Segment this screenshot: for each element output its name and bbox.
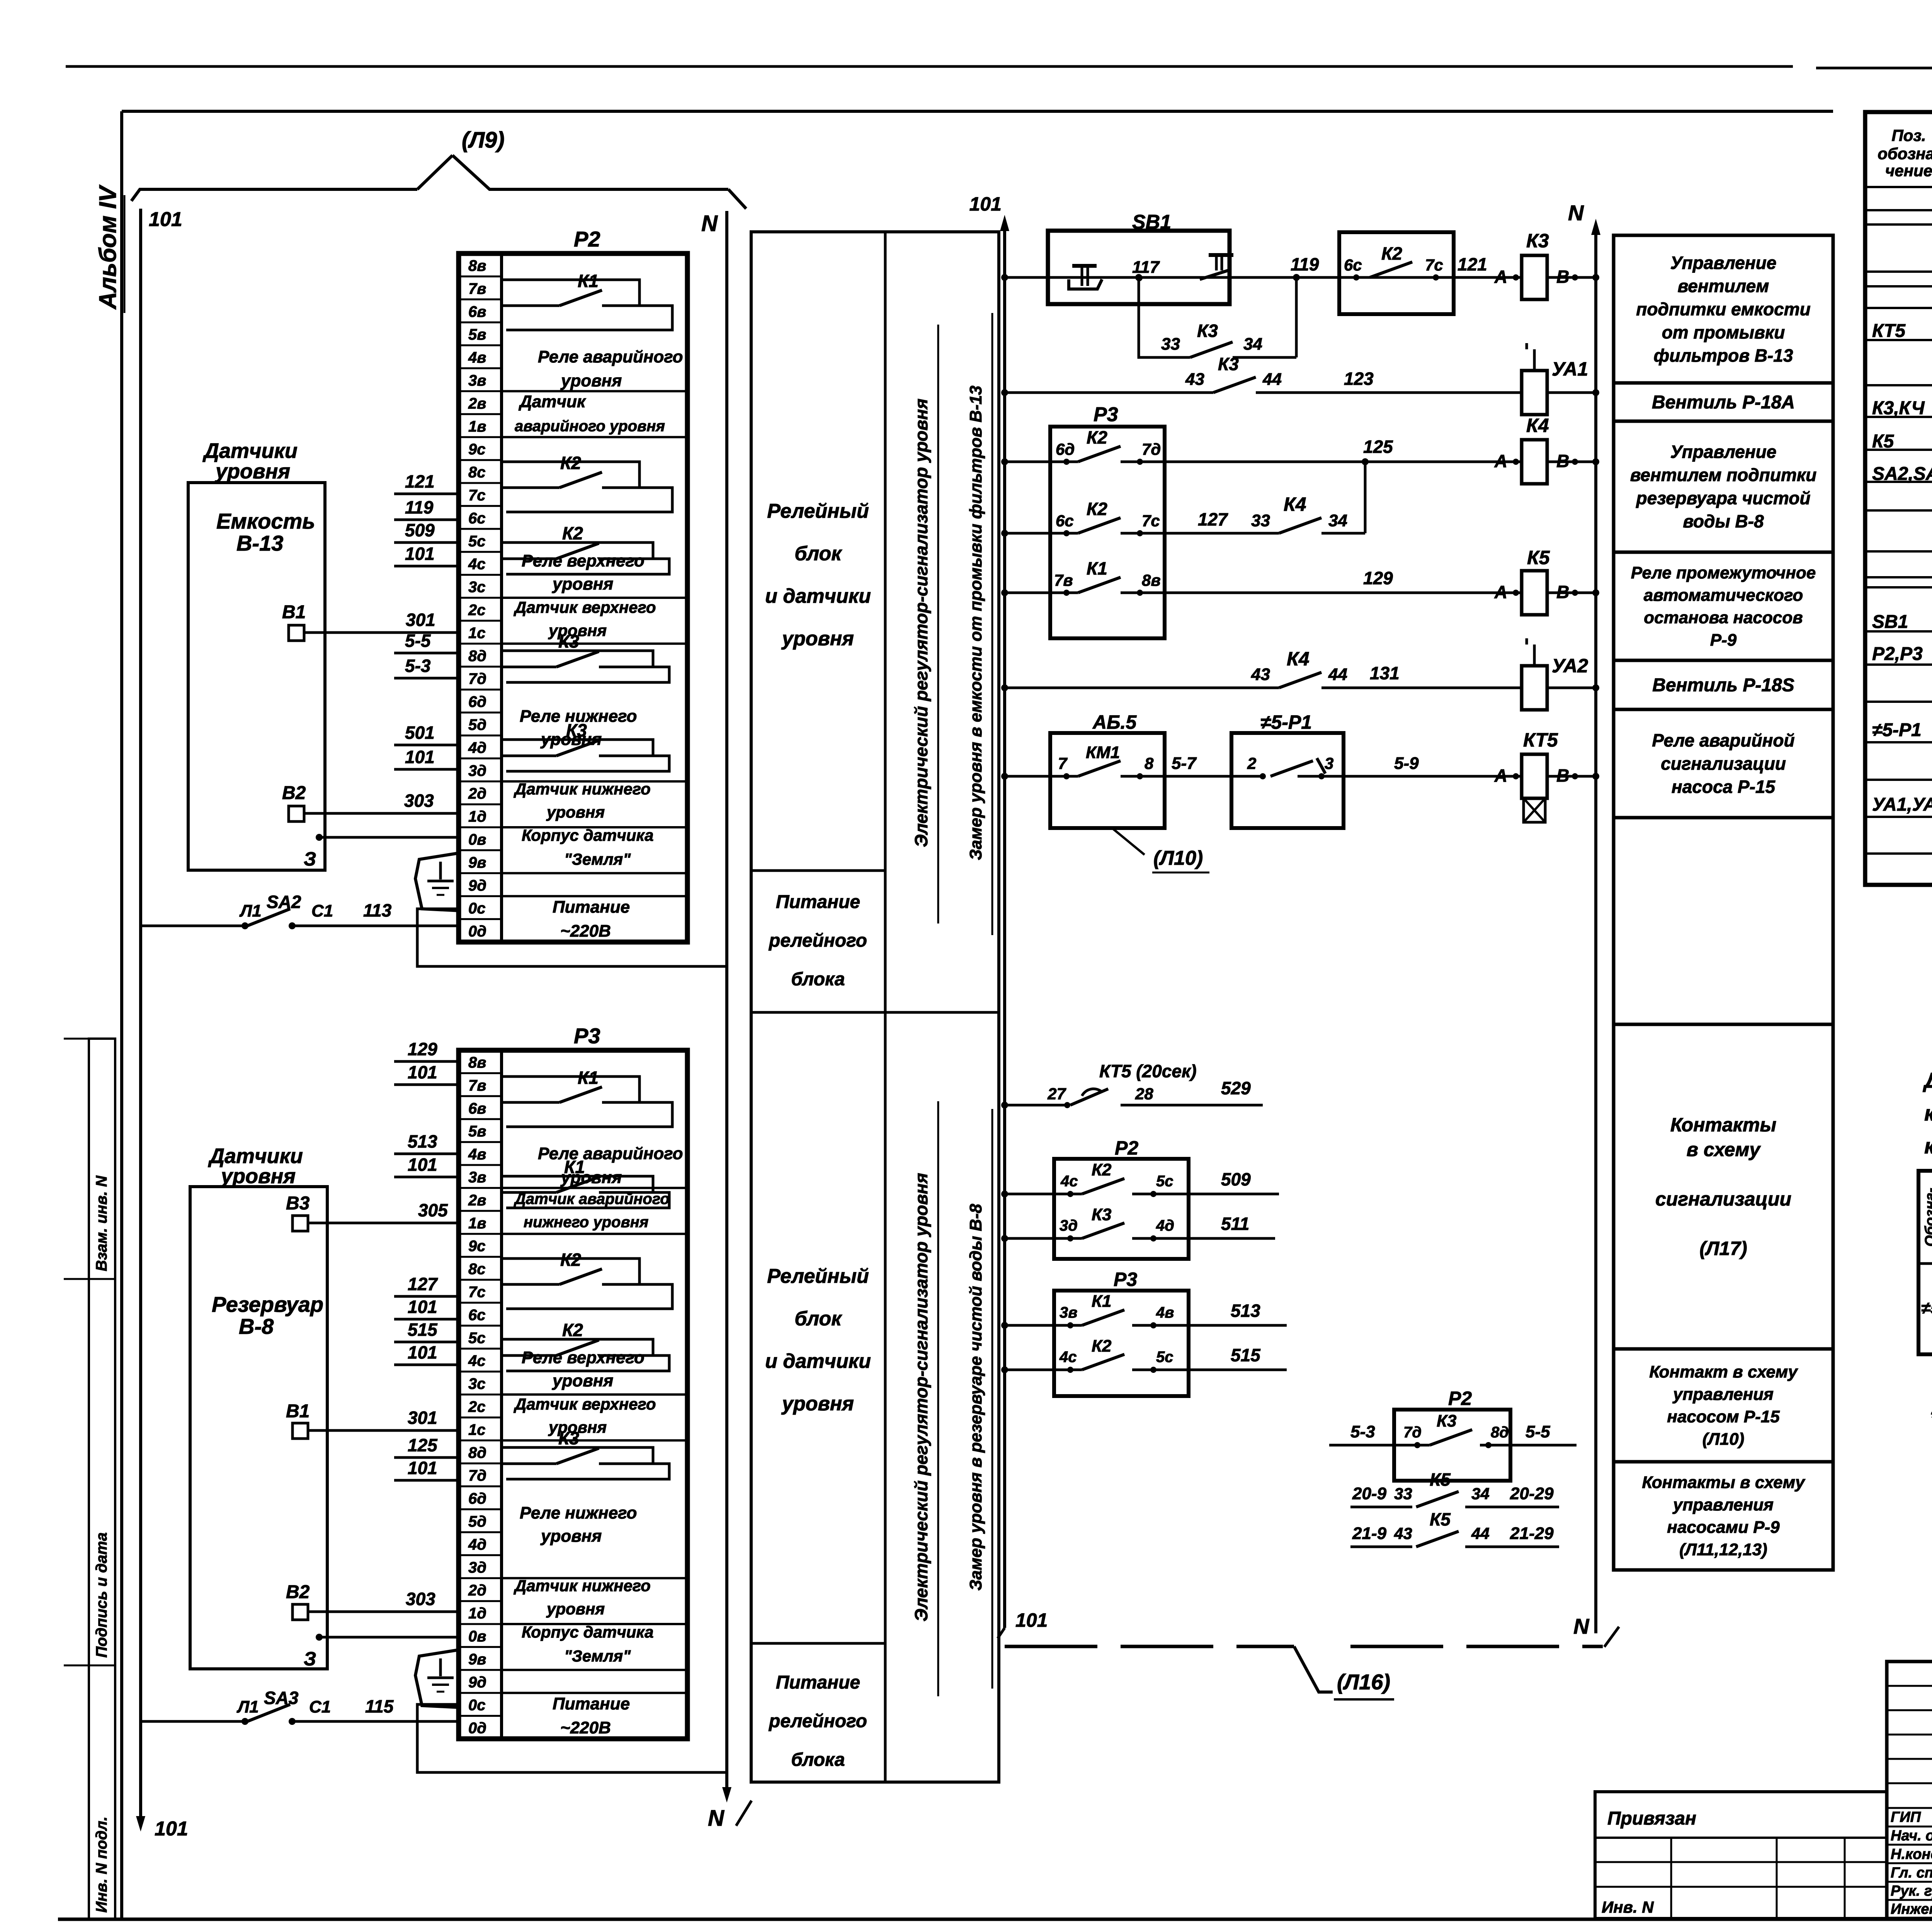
svg-text:КМ1: КМ1 — [1086, 743, 1120, 762]
svg-text:В3: В3 — [286, 1193, 310, 1214]
wire: left section N bus — [701, 211, 752, 1831]
svg-text:7: 7 — [1058, 754, 1068, 772]
wire rung 1 (valve B-13 control) — [1001, 274, 1599, 281]
ground symbol at P3 — [415, 1650, 461, 1708]
svg-text:в схему: в схему — [1687, 1139, 1761, 1160]
svg-text:Л1: Л1 — [236, 1697, 259, 1716]
svg-text:43: 43 — [1251, 665, 1270, 684]
svg-text:SА2,SА3: SА2,SА3 — [1872, 464, 1932, 484]
node: parts list entries — [1872, 240, 1932, 852]
svg-text:УА2: УА2 — [1552, 655, 1588, 677]
svg-text:К5: К5 — [1430, 1469, 1451, 1490]
wire 5-5 to P2 — [394, 631, 459, 653]
svg-text:уровня: уровня — [552, 575, 613, 594]
svg-text:К1: К1 — [578, 1068, 599, 1088]
contact block P2 (pump P-15 circuit) — [1394, 1388, 1510, 1481]
svg-text:К2: К2 — [1087, 499, 1107, 519]
svg-text:1с: 1с — [468, 1421, 486, 1438]
svg-text:SA3: SA3 — [264, 1688, 299, 1708]
wire: center N bus — [1568, 201, 1619, 1647]
svg-text:119: 119 — [1291, 254, 1319, 274]
svg-text:резервуара чистой: резервуара чистой — [1636, 488, 1811, 508]
svg-text:(Л9): (Л9) — [462, 128, 505, 153]
svg-text:К3: К3 — [1197, 321, 1218, 341]
svg-text:К4: К4 — [1526, 415, 1549, 436]
svg-text:4с: 4с — [1059, 1349, 1077, 1366]
wire 125 to P3 — [394, 1435, 459, 1458]
svg-text:насоса Р-15: насоса Р-15 — [1672, 777, 1776, 797]
relay block Р2 — [459, 227, 687, 942]
wire 301 from B1 — [304, 610, 459, 633]
svg-text:131: 131 — [1370, 663, 1400, 683]
svg-text:501: 501 — [405, 723, 435, 743]
svg-text:Датчик: Датчик — [518, 392, 587, 411]
svg-text:Емкость: Емкость — [216, 509, 315, 533]
svg-text:515: 515 — [1231, 1345, 1261, 1365]
contact KM1 7-8 — [1058, 743, 1154, 779]
node: tank B-13 box — [188, 483, 325, 870]
svg-text:3с: 3с — [468, 579, 486, 596]
svg-text:3д: 3д — [468, 1559, 486, 1576]
wire: P3 return to N — [417, 1721, 727, 1772]
svg-text:блок: блок — [794, 543, 842, 565]
pushbutton post SB1 — [1048, 211, 1233, 304]
svg-text:В-13: В-13 — [236, 531, 283, 555]
svg-text:Вентиль Р-18S: Вентиль Р-18S — [1652, 675, 1794, 696]
svg-text:2в: 2в — [468, 1192, 486, 1209]
svg-text:(Л10): (Л10) — [1153, 847, 1203, 869]
svg-text:5-5: 5-5 — [1526, 1422, 1550, 1441]
svg-text:Реле верхнего: Реле верхнего — [522, 551, 645, 570]
svg-text:2с: 2с — [468, 602, 486, 619]
svg-text:5-3: 5-3 — [405, 656, 431, 676]
svg-text:КТ5: КТ5 — [1872, 321, 1906, 341]
svg-text:*) не используется: *) не используется — [1930, 1406, 1932, 1431]
switch SA2 power rung — [141, 892, 459, 929]
svg-text:В2: В2 — [282, 783, 306, 803]
svg-text:4в: 4в — [1156, 1304, 1174, 1321]
svg-text:Реле нижнего: Реле нижнего — [520, 1503, 637, 1522]
svg-text:Контакты в схему: Контакты в схему — [1642, 1473, 1806, 1492]
svg-text:511: 511 — [1221, 1214, 1249, 1234]
svg-text:5в: 5в — [468, 1123, 486, 1140]
svg-text:Датчик верхнего: Датчик верхнего — [514, 598, 656, 616]
svg-text:2: 2 — [1247, 754, 1256, 772]
svg-text:6с: 6с — [468, 510, 486, 527]
svg-text:5д: 5д — [468, 1513, 486, 1530]
svg-text:К2: К2 — [560, 1250, 581, 1270]
sensor B1 — [282, 602, 306, 641]
svg-text:Р3: Р3 — [1094, 403, 1118, 426]
svg-text:~220В: ~220В — [560, 1718, 611, 1737]
svg-text:8в: 8в — [468, 1054, 486, 1071]
svg-text:Р2: Р2 — [1115, 1137, 1138, 1159]
svg-text:4с: 4с — [1060, 1173, 1078, 1190]
wire: left section L1 bus 101 — [136, 208, 188, 1840]
relay coil КТ5 — [1494, 729, 1578, 822]
wire: bottom cable bracket L16 — [1005, 1646, 1603, 1699]
svg-text:Гл. спец.: Гл. спец. — [1891, 1865, 1932, 1881]
ground connection Z of B-13 — [304, 834, 459, 870]
svg-text:≠5-Р1: ≠5-Р1 — [1921, 1299, 1932, 1318]
node: parts list table — [1865, 112, 1932, 885]
wire: top frame of cabinet AS1 — [122, 110, 1833, 113]
svg-text:К2: К2 — [562, 523, 583, 543]
svg-text:5-3: 5-3 — [1350, 1422, 1375, 1441]
svg-text:7д: 7д — [1142, 440, 1161, 458]
svg-text:Питание: Питание — [553, 898, 630, 917]
svg-text:(Л16): (Л16) — [1337, 1670, 1390, 1694]
svg-text:останова насосов: останова насосов — [1644, 608, 1803, 627]
node: binding box — [1595, 1792, 1887, 1918]
svg-text:подпитки емкости: подпитки емкости — [1636, 299, 1811, 319]
svg-text:Управление: Управление — [1670, 253, 1777, 273]
svg-text:129: 129 — [408, 1039, 437, 1059]
svg-text:101: 101 — [408, 1297, 437, 1317]
svg-text:303: 303 — [404, 791, 434, 811]
wire: SB1 bypass branch — [1135, 274, 1190, 357]
svg-text:Л1: Л1 — [239, 901, 262, 920]
svg-text:1в: 1в — [468, 1215, 486, 1232]
contact block AB.5 — [1050, 711, 1165, 828]
svg-text:Р2: Р2 — [574, 227, 600, 251]
svg-text:Релейный: Релейный — [767, 500, 869, 522]
svg-text:Электрический регулятор-сигна: Электрический регулятор-сигнализатор уро… — [911, 1173, 931, 1622]
svg-text:З: З — [304, 1648, 316, 1670]
svg-text:(Л17): (Л17) — [1699, 1238, 1747, 1259]
svg-text:121: 121 — [1458, 254, 1487, 274]
svg-text:N: N — [708, 1806, 724, 1831]
svg-text:4д: 4д — [1156, 1217, 1174, 1234]
svg-text:101: 101 — [405, 544, 435, 564]
svg-text:2д: 2д — [468, 1582, 486, 1599]
svg-text:8с: 8с — [468, 464, 486, 481]
svg-text:уровня: уровня — [560, 371, 622, 390]
svg-text:SA2: SA2 — [267, 892, 301, 912]
svg-text:К3: К3 — [1092, 1205, 1112, 1224]
contact K2 in Р2 — [502, 453, 672, 512]
svg-text:34: 34 — [1328, 511, 1347, 530]
contact K1 7b-8b — [1054, 558, 1161, 596]
svg-text:5-7: 5-7 — [1172, 754, 1197, 773]
wire 127 to P3 — [394, 1274, 459, 1296]
svg-text:Датчик нижнего: Датчик нижнего — [514, 780, 651, 798]
contact K3 33-34 — [1161, 321, 1262, 357]
wire 515 signal — [1001, 1337, 1287, 1373]
svg-text:2в: 2в — [468, 395, 486, 412]
svg-text:3в: 3в — [468, 1169, 486, 1186]
svg-text:101: 101 — [408, 1062, 437, 1082]
svg-text:Релейный: Релейный — [767, 1265, 869, 1287]
svg-text:9с: 9с — [468, 441, 486, 458]
svg-text:6д: 6д — [1056, 440, 1075, 458]
svg-text:В: В — [1556, 451, 1569, 471]
contact K2 second in Р3 — [502, 1320, 669, 1371]
svg-text:Р-9: Р-9 — [1710, 631, 1737, 650]
contact block P2 (signal) — [1054, 1137, 1189, 1259]
svg-text:Р2: Р2 — [1448, 1388, 1472, 1409]
svg-text:"Земля": "Земля" — [564, 850, 631, 868]
sensor B3 — [286, 1193, 310, 1231]
svg-text:7д: 7д — [468, 670, 486, 687]
svg-text:5-5: 5-5 — [405, 631, 431, 651]
svg-text:8с: 8с — [468, 1261, 486, 1278]
wire rung 5 (pump auto-stop relay) — [1001, 589, 1599, 596]
sensor B2 of B-8 — [286, 1582, 310, 1620]
contact K2 in Р3 — [502, 1250, 672, 1309]
svg-text:4с: 4с — [468, 556, 486, 573]
wire 101 to P3 — [394, 1342, 459, 1365]
svg-text:ГИП: ГИП — [1891, 1809, 1921, 1825]
svg-text:5-9: 5-9 — [1394, 754, 1419, 773]
svg-text:9д: 9д — [468, 1674, 486, 1691]
svg-text:6с: 6с — [1344, 256, 1362, 274]
svg-text:21-29: 21-29 — [1510, 1524, 1554, 1543]
svg-text:Р3: Р3 — [1114, 1269, 1137, 1290]
svg-text:33: 33 — [1394, 1485, 1412, 1503]
svg-text:сигнализации: сигнализации — [1661, 753, 1786, 774]
wire 101 to P2 — [394, 747, 459, 769]
svg-text:≠5-Р1: ≠5-Р1 — [1260, 711, 1312, 733]
relay coil УА1 — [1522, 343, 1588, 415]
svg-text:1в: 1в — [468, 418, 486, 435]
svg-text:Подпись и дата: Подпись и дата — [93, 1532, 110, 1658]
svg-text:101: 101 — [969, 193, 1002, 215]
svg-text:529: 529 — [1221, 1078, 1251, 1098]
contact K2 second in Р2 — [502, 523, 669, 574]
svg-text:Датчик аварийного: Датчик аварийного — [514, 1190, 670, 1207]
wire 5-3 / 5-5 contact K3 7d-8d — [1329, 1412, 1577, 1448]
svg-text:В1: В1 — [282, 602, 306, 622]
svg-text:7с: 7с — [468, 487, 486, 504]
contact K1 in Р2 — [502, 271, 672, 330]
svg-text:9в: 9в — [468, 854, 486, 871]
svg-text:К3: К3 — [1437, 1412, 1457, 1430]
svg-text:обозна-: обозна- — [1878, 145, 1932, 163]
svg-text:В: В — [1556, 582, 1569, 602]
ground symbol at P2 — [415, 853, 461, 911]
svg-text:Контакт в схему: Контакт в схему — [1649, 1362, 1798, 1381]
svg-text:301: 301 — [406, 610, 435, 630]
svg-text:5с: 5с — [468, 1330, 486, 1347]
svg-text:515: 515 — [408, 1320, 438, 1340]
contact K5 43-44 (pumps P-9) — [1350, 1509, 1559, 1547]
svg-text:Инв. N: Инв. N — [1602, 1898, 1654, 1916]
wire rung 4 — [1001, 458, 1369, 537]
svg-text:509: 509 — [1221, 1169, 1251, 1189]
svg-text:К2: К2 — [1092, 1160, 1112, 1179]
svg-text:(Л10): (Л10) — [1702, 1430, 1744, 1449]
sensor B1 of B-8 — [286, 1401, 310, 1439]
svg-text:101: 101 — [405, 747, 435, 767]
svg-text:В-8: В-8 — [239, 1314, 274, 1338]
svg-text:123: 123 — [1344, 369, 1374, 389]
wire rung 6 (valve P-18S) — [1001, 684, 1599, 691]
contact K4 43-44 — [1251, 648, 1347, 688]
svg-text:7с: 7с — [468, 1284, 486, 1301]
relay coil УА2 — [1522, 638, 1588, 710]
svg-text:Н.констр.: Н.констр. — [1891, 1846, 1932, 1862]
svg-text:Привязан: Привязан — [1607, 1808, 1696, 1829]
svg-text:8д: 8д — [1491, 1424, 1509, 1441]
svg-text:4в: 4в — [468, 349, 486, 366]
svg-text:3в: 3в — [468, 372, 486, 389]
wire 303 from B2 of B-8 — [308, 1589, 459, 1612]
svg-text:Контакты: Контакты — [1670, 1114, 1776, 1136]
svg-text:КТ5 (20сек): КТ5 (20сек) — [1099, 1061, 1197, 1081]
svg-text:9с: 9с — [468, 1238, 486, 1255]
svg-text:К3: К3 — [1526, 230, 1549, 252]
svg-text:305: 305 — [418, 1200, 448, 1220]
svg-text:513: 513 — [408, 1131, 437, 1151]
svg-text:Инженер: Инженер — [1891, 1901, 1932, 1917]
svg-text:6с: 6с — [468, 1306, 486, 1323]
relay coil К4 — [1494, 415, 1578, 484]
svg-text:К5: К5 — [1430, 1509, 1451, 1529]
svg-text:В: В — [1556, 765, 1569, 786]
svg-text:Питание: Питание — [776, 892, 860, 912]
svg-text:3д: 3д — [468, 762, 486, 779]
svg-text:8в: 8в — [1142, 571, 1161, 589]
svg-text:К2: К2 — [560, 453, 581, 473]
svg-text:Реле нижнего: Реле нижнего — [520, 707, 637, 726]
node: function annotation column — [1614, 235, 1833, 1570]
contact K4 33-34 — [1251, 493, 1347, 533]
svg-text:0с: 0с — [468, 900, 486, 917]
contact K3 second in Р2 — [502, 720, 669, 771]
svg-text:117: 117 — [1132, 258, 1160, 277]
wire 513 signal — [1001, 1292, 1287, 1329]
svg-text:34: 34 — [1243, 335, 1262, 354]
svg-text:Резервуар: Резервуар — [212, 1292, 323, 1316]
svg-text:~220В: ~220В — [560, 922, 611, 940]
ground connection Z of B-8 — [304, 1634, 459, 1670]
contact K3 in Р3 — [502, 1428, 669, 1479]
svg-text:Замер уровня в емкости от: Замер уровня в емкости от промывки фильт… — [966, 386, 985, 860]
svg-text:8в: 8в — [468, 257, 486, 274]
svg-text:9д: 9д — [468, 877, 486, 894]
svg-text:0д: 0д — [468, 923, 486, 940]
svg-text:115: 115 — [365, 1696, 394, 1716]
wire 509 signal — [1001, 1160, 1279, 1197]
node: middle legend column — [751, 232, 999, 1782]
svg-text:4в: 4в — [468, 1146, 486, 1163]
svg-text:0в: 0в — [468, 1628, 486, 1645]
svg-text:7в: 7в — [1054, 571, 1073, 589]
switch SA3 power rung — [141, 1688, 459, 1725]
svg-text:контактного манометра: контактного манометра — [1924, 1134, 1932, 1158]
svg-text:Альбом IV: Альбом IV — [95, 184, 121, 310]
wire 101 to P3 — [394, 1297, 459, 1319]
svg-text:В: В — [1556, 267, 1569, 287]
svg-text:от промывки: от промывки — [1662, 322, 1785, 342]
svg-text:7в: 7в — [468, 280, 486, 297]
node: manometer diagram table — [1918, 1171, 1932, 1354]
svg-text:аварийного уровня: аварийного уровня — [515, 418, 665, 435]
svg-text:Реле аварийного: Реле аварийного — [538, 347, 683, 366]
svg-text:8д: 8д — [468, 1444, 486, 1461]
relay coil К5 — [1494, 547, 1578, 615]
svg-text:113: 113 — [363, 900, 392, 920]
svg-text:"Земля": "Земля" — [564, 1647, 631, 1665]
svg-text:2д: 2д — [468, 785, 486, 802]
svg-text:3с: 3с — [468, 1376, 486, 1393]
contact K3 43-44 — [1185, 354, 1282, 393]
svg-text:уровня: уровня — [546, 803, 605, 821]
svg-text:101: 101 — [149, 208, 182, 231]
svg-text:релейного: релейного — [768, 1711, 867, 1731]
svg-text:N: N — [701, 211, 718, 236]
svg-text:6д: 6д — [468, 694, 486, 711]
svg-text:8д: 8д — [468, 648, 486, 665]
svg-text:Диаграмма замыкания: Диаграмма замыкания — [1923, 1068, 1932, 1092]
svg-text:303: 303 — [406, 1589, 435, 1609]
svg-text:513: 513 — [1231, 1301, 1260, 1321]
svg-text:8: 8 — [1145, 754, 1154, 772]
svg-text:129: 129 — [1363, 568, 1393, 588]
contact K5 33-34 (pumps P-9) — [1350, 1469, 1559, 1507]
wire rung 7 (pump P-15 alarm relay) — [1001, 773, 1599, 780]
svg-text:101: 101 — [408, 1458, 437, 1478]
svg-text:Датчик верхнего: Датчик верхнего — [514, 1395, 656, 1413]
sensor B2 — [282, 783, 306, 821]
svg-text:4д: 4д — [468, 739, 486, 756]
svg-text:1д: 1д — [468, 808, 486, 825]
svg-text:101: 101 — [408, 1342, 437, 1362]
svg-text:1с: 1с — [468, 624, 486, 641]
svg-text:(Л11,12,13): (Л11,12,13) — [1679, 1540, 1767, 1559]
svg-text:автоматического: автоматического — [1644, 586, 1803, 605]
wire 305 from B3 — [308, 1200, 459, 1223]
svg-text:контактов электро-: контактов электро- — [1924, 1101, 1932, 1125]
contact K1 second in Р3 — [502, 1157, 669, 1208]
svg-text:релейного: релейного — [768, 930, 867, 951]
svg-text:Обозна-: Обозна- — [1922, 1188, 1932, 1247]
svg-text:7д: 7д — [1403, 1424, 1422, 1441]
svg-text:А: А — [1494, 451, 1507, 471]
svg-text:33: 33 — [1161, 335, 1180, 354]
node: sensors label (top) — [202, 439, 298, 483]
svg-text:УА1: УА1 — [1552, 358, 1588, 380]
contact block 5-P1 (manometer) — [1231, 711, 1344, 828]
svg-text:2с: 2с — [468, 1398, 486, 1415]
svg-text:3: 3 — [1325, 754, 1333, 772]
svg-text:Корпус датчика: Корпус датчика — [522, 1623, 654, 1641]
svg-text:К2: К2 — [562, 1320, 583, 1340]
svg-text:Реле аварийной: Реле аварийной — [1652, 730, 1794, 750]
svg-text:Корпус датчика: Корпус датчика — [522, 826, 654, 844]
svg-text:З: З — [304, 848, 316, 870]
wire 513 to P3 — [394, 1131, 459, 1154]
svg-text:фильтров В-13: фильтров В-13 — [1654, 345, 1793, 366]
svg-text:уровня: уровня — [540, 1527, 602, 1546]
svg-text:3в: 3в — [1060, 1304, 1077, 1321]
svg-text:уровня: уровня — [540, 730, 602, 749]
wire 129 to P3 — [394, 1039, 459, 1061]
wire: branch return — [1233, 274, 1300, 357]
svg-text:уровня: уровня — [560, 1168, 622, 1187]
svg-text:Инв. N подл.: Инв. N подл. — [93, 1816, 110, 1913]
svg-text:уровня: уровня — [548, 621, 607, 639]
svg-text:блока: блока — [791, 969, 845, 990]
svg-text:20-9: 20-9 — [1352, 1484, 1387, 1503]
svg-text:Датчики: Датчики — [208, 1145, 303, 1168]
svg-text:К1: К1 — [1092, 1292, 1112, 1311]
svg-text:и датчики: и датчики — [765, 1350, 871, 1372]
svg-text:5с: 5с — [468, 533, 486, 550]
svg-text:С1: С1 — [311, 901, 333, 920]
svg-text:Электрический регулятор-сигна: Электрический регулятор-сигнализатор уро… — [911, 399, 931, 847]
